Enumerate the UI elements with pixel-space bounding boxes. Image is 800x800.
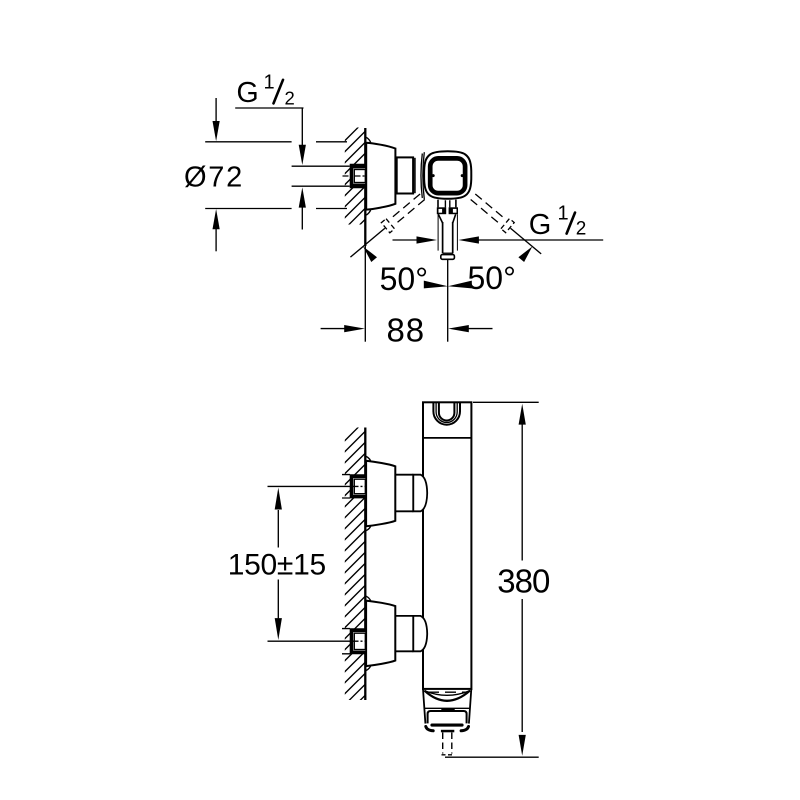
G1/2 leader line <box>235 108 303 146</box>
stem shaft <box>443 222 453 253</box>
bottom cap sides <box>423 689 471 724</box>
escutcheon cone (plan) <box>366 143 395 210</box>
holder block divider <box>423 437 471 439</box>
svg-text:88: 88 <box>386 311 425 348</box>
wall line (plan view) <box>364 128 366 246</box>
svg-text:2: 2 <box>285 87 295 108</box>
svg-text:1: 1 <box>558 203 569 225</box>
outlet shelf line <box>425 707 470 709</box>
svg-text:50°: 50° <box>468 260 516 296</box>
holder C-ring inner <box>439 403 455 420</box>
angle arc bowtie arrowheads at centerline <box>424 281 448 289</box>
lever stem neck lines <box>438 200 456 208</box>
svg-text:1: 1 <box>264 72 275 94</box>
handle pivot dots <box>432 174 435 177</box>
stem end line <box>443 252 453 254</box>
upper union cone <box>366 461 395 527</box>
valve body (plan) <box>397 157 413 193</box>
phantom lever rotated right 50 <box>469 192 546 259</box>
mixer body (side view) <box>423 402 471 689</box>
svg-text:150±15: 150±15 <box>228 549 326 582</box>
svg-text:G: G <box>237 77 259 109</box>
072 extension lines <box>205 142 347 209</box>
outlet dark slot <box>430 724 463 727</box>
stem centerline extension <box>447 260 449 342</box>
svg-text:380: 380 <box>497 563 550 600</box>
outlet nipple hidden lines <box>443 733 452 754</box>
svg-text:2: 2 <box>576 218 587 239</box>
phantom lever rotated left 50 <box>346 192 426 263</box>
angle arc arrowhead at left line <box>363 247 377 263</box>
bottom cap hidden edge <box>428 691 467 693</box>
upper union nut <box>413 475 427 512</box>
stem extension lines <box>438 214 457 250</box>
lower socket in wall <box>342 629 350 654</box>
upper socket in wall <box>342 475 350 498</box>
lower pipe centerline <box>268 640 353 642</box>
outlet corner foot right <box>461 727 468 731</box>
escutcheon flange fillet top <box>366 137 371 143</box>
outlet nipple top <box>441 730 454 733</box>
outlet corner foot left <box>426 727 433 731</box>
wall line (side view) <box>364 428 366 701</box>
shower hose holder C-ring outer <box>433 403 460 425</box>
ring line <box>414 158 416 193</box>
svg-text:50°: 50° <box>380 261 428 297</box>
escutcheon flange fillet bottom <box>366 209 371 215</box>
angle arc arrowhead at right line <box>518 247 532 263</box>
upper union nipple <box>395 475 413 512</box>
lower union nut <box>413 616 427 651</box>
svg-text:G: G <box>529 209 552 241</box>
072 dimension arrows <box>215 98 217 124</box>
pipe socket in wall (plan) <box>350 164 366 189</box>
outlet mouth frame <box>428 711 467 723</box>
wall hatching (plan view) <box>335 120 366 250</box>
supply pipe stub lines <box>292 166 350 186</box>
lever stem side tabs <box>437 207 446 214</box>
upper pipe centerline <box>268 485 353 487</box>
lever width dimension line <box>393 239 419 241</box>
lower union nipple <box>395 616 413 651</box>
stem end cap <box>441 255 455 260</box>
holder C-ring middle <box>436 403 457 422</box>
lower union cone <box>366 601 395 667</box>
svg-text:Ø72: Ø72 <box>184 162 244 194</box>
transition curves to handle <box>421 154 422 199</box>
pipe centerline (dash-dot) <box>343 175 366 177</box>
handle outer squircle (plan) <box>424 151 471 199</box>
wall hatching (side view) <box>335 420 366 726</box>
bottom cap crescent <box>424 691 470 696</box>
handle inner band (thick) <box>430 158 465 193</box>
stem taper <box>438 214 455 223</box>
